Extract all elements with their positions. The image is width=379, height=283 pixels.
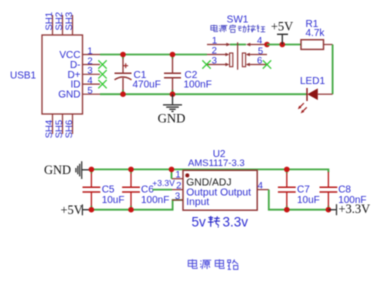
power port +3.3V bottom-right [328, 202, 370, 216]
wire U2 pin4 to +3.3V rail [269, 190, 329, 210]
svg-text:Input: Input [186, 197, 209, 208]
svg-text:10uF: 10uF [297, 195, 320, 206]
wire R1 down to LED1 [332, 45, 334, 95]
power port +5V top [271, 20, 293, 45]
wire SW1 pin4 to R1 [267, 44, 301, 46]
svg-text:4: 4 [258, 180, 263, 191]
svg-text:+3.3V: +3.3V [152, 178, 175, 188]
SW1 pin 2 [207, 46, 226, 57]
junction C6 bottom [128, 207, 134, 213]
junction U2 pin1 drop [169, 167, 175, 173]
svg-text:GND: GND [44, 163, 71, 177]
wire VCC rail from USB pin1 to SW1 pin2 [100, 54, 207, 56]
pin SH1 [44, 12, 55, 35]
svg-text:470uF: 470uF [133, 80, 161, 91]
annotation 5v to 3.3v [192, 214, 249, 229]
capacitor C6 100nF [122, 169, 169, 209]
svg-text:1: 1 [175, 170, 180, 181]
svg-text:GND: GND [158, 111, 186, 125]
svg-text:GND: GND [58, 90, 80, 101]
svg-text:2: 2 [176, 180, 181, 191]
U2 pin 4 [257, 180, 269, 191]
pin 5 GND [58, 86, 100, 101]
SW1 pin 5 [247, 46, 267, 57]
capacitor C7 10uF [278, 169, 320, 209]
svg-text:5v: 5v [192, 214, 207, 229]
wire GND rail from USB pin5 to LED1 cathode [100, 93, 307, 95]
svg-text:100nF: 100nF [141, 195, 169, 206]
wire GND rail drop to U2 pin1 [171, 169, 173, 178]
connector USB1 [10, 35, 83, 114]
pin SH5 [54, 114, 65, 138]
ground symbol GND below C2 [158, 94, 186, 125]
pin 1 VCC [59, 46, 100, 61]
svg-text:5: 5 [87, 86, 92, 97]
capacitor C2 100nF [164, 55, 212, 95]
capacitor C5 10uF [83, 169, 125, 209]
power port GND bottom-left [44, 161, 91, 179]
label SW1 Chinese subtitle (power start button) [211, 25, 265, 33]
power port +5V bottom-left [61, 203, 92, 217]
pin 2 D- with no-ERC cross [70, 56, 107, 71]
svg-text:USB1: USB1 [10, 71, 37, 82]
svg-text:3: 3 [175, 191, 180, 202]
pin SH6 [64, 114, 75, 138]
junction SW1 pin4 [264, 42, 270, 48]
pin 4 ID with no-ERC cross [71, 75, 107, 90]
SW1 pin 1 [207, 36, 227, 47]
junction C6 top [128, 167, 134, 173]
SW1 pin 6 with no-ERC cross [247, 55, 271, 68]
svg-text:6: 6 [257, 55, 262, 66]
pin SH2 [54, 12, 65, 35]
SW1 pin 3 with no-ERC cross [202, 55, 226, 68]
junction C2 bottom [170, 91, 176, 97]
U2 pin 2 with net label +3.3V [152, 178, 183, 191]
SW1 actuator bar and contacts [225, 42, 250, 69]
junction C5 top [89, 167, 95, 173]
U2 pin 3 [172, 191, 183, 202]
svg-text:+5V: +5V [61, 203, 83, 217]
wire GND rail bottom section [91, 169, 328, 172]
U2 pin 1 [172, 170, 184, 181]
svg-text:SH6: SH6 [64, 120, 75, 138]
junction C5 bottom [89, 207, 95, 213]
switch SW1 pushbutton [227, 15, 249, 26]
svg-text:4.7k: 4.7k [306, 28, 326, 39]
junction +5V tap [280, 42, 286, 48]
title annotation: power circuit [188, 259, 238, 269]
svg-text:AMS1117-3.3: AMS1117-3.3 [188, 158, 245, 169]
capacitor C8 100nF [320, 172, 367, 210]
junction C2 top [170, 52, 176, 58]
resistor R1 4.7k [301, 19, 333, 49]
capacitor C1 polarized 470uF [115, 55, 161, 95]
svg-text:3.3v: 3.3v [223, 214, 249, 229]
svg-text:10uF: 10uF [102, 195, 125, 206]
SW1 pin 4 [250, 36, 268, 47]
svg-text:SW1: SW1 [227, 15, 249, 26]
svg-text:+5V: +5V [271, 20, 293, 34]
junction C1 top [120, 52, 126, 58]
pin SH3 [64, 12, 75, 35]
svg-text:100nF: 100nF [184, 80, 212, 91]
regulator U2 AMS1117-3.3 [183, 149, 257, 210]
pin 3 D+ with no-ERC cross [67, 66, 106, 81]
svg-text:LED1: LED1 [300, 76, 325, 87]
junction C7 top [284, 167, 290, 173]
junction C7 bottom [284, 207, 290, 213]
junction C8 bottom [326, 207, 332, 213]
wire +5V rail bottom section [91, 200, 183, 210]
svg-text:SH3: SH3 [64, 12, 75, 30]
svg-text:3: 3 [212, 55, 217, 66]
junction C1 bottom [120, 91, 126, 97]
svg-text:+3.3V: +3.3V [339, 202, 371, 216]
LED LED1 [297, 76, 333, 114]
pin SH4 [44, 114, 55, 138]
